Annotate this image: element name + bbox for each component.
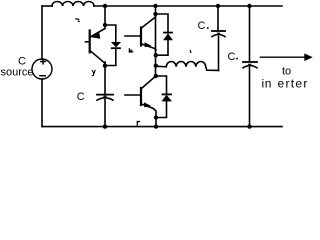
label C. (C3) <box>228 51 238 63</box>
label to <box>282 65 291 77</box>
label C (C1) <box>77 91 85 103</box>
label L1 <box>76 19 79 22</box>
svg-text:to: to <box>282 65 291 77</box>
wire top rail left segment <box>42 5 52 7</box>
label y (Q1) <box>92 70 95 75</box>
diode D3 <box>156 76 167 94</box>
node: left leg bottom rail junction <box>103 124 107 128</box>
node: right leg bottom rail junction <box>154 124 158 128</box>
wire left leg lower <box>104 100 106 127</box>
transistor Q3 <box>140 88 142 105</box>
svg-text:C: C <box>228 51 236 63</box>
wire left leg upper <box>104 6 106 25</box>
wire right leg bottom <box>155 118 157 127</box>
node: Q2 collector/diode split <box>153 12 157 16</box>
node: C2 top rail junction <box>216 4 220 8</box>
node: left emitter junction <box>103 63 107 67</box>
node: Q3 collector/diode split <box>154 74 158 78</box>
label r (Q3) <box>137 121 139 125</box>
node: Q2 emitter junction <box>154 53 158 57</box>
capacitor C1 <box>97 94 113 96</box>
dc source V1 <box>32 59 52 79</box>
svg-text:C: C <box>77 91 85 103</box>
bottom rail <box>42 126 282 128</box>
label b (Q2) <box>129 49 132 53</box>
node: left leg top junction <box>103 4 107 8</box>
svg-text:C: C <box>198 20 206 32</box>
node: Q3 emitter junction <box>154 115 158 119</box>
inductor L1 <box>52 2 94 7</box>
capacitor C3 <box>249 6 251 62</box>
node: C3 bottom rail junction <box>247 124 251 128</box>
svg-text:erter: erter <box>278 77 309 91</box>
diode D2 <box>156 14 169 32</box>
node: right leg top rail junction <box>153 4 157 8</box>
svg-text:source: source <box>1 67 34 79</box>
arrow to inverter <box>261 56 305 58</box>
filter inductor L2 <box>156 61 219 70</box>
wire top rail right segment <box>94 5 282 7</box>
wire left leg mid <box>104 62 106 94</box>
label C source <box>1 56 34 79</box>
node: C3 top rail junction <box>247 4 251 8</box>
transistor Q1 <box>89 31 91 53</box>
wire top-left vertical (source to top rail) <box>41 6 43 59</box>
label C. (C2) <box>198 20 209 32</box>
label tick (L2) <box>189 51 192 53</box>
transistor Q2 <box>140 28 142 46</box>
wire bottom-left vertical (rail to source) <box>41 79 43 127</box>
wire right leg <box>155 6 157 76</box>
diode D1 <box>105 25 116 42</box>
node: filter tap <box>154 63 158 67</box>
svg-text:in: in <box>262 77 273 91</box>
capacitor C2 <box>217 6 219 31</box>
node: left collector/diode split <box>103 23 107 27</box>
label in erter <box>262 77 309 91</box>
